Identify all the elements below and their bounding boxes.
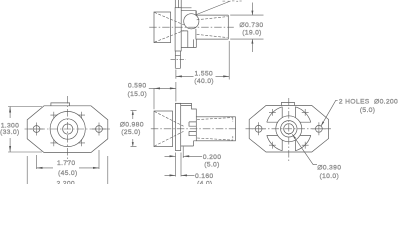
svg-text:(5.0): (5.0) [360, 107, 375, 114]
inner circle [281, 121, 297, 137]
flange slab (edge-on) [175, 8, 181, 51]
svg-text:Ø0.980: Ø0.980 [120, 122, 144, 129]
svg-text:(15.0): (15.0) [128, 91, 148, 98]
svg-text:0.590: 0.590 [128, 83, 147, 90]
body steps below circle [181, 29, 196, 48]
dim 1.550 extension lines [176, 41, 229, 80]
stub centerline [171, 58, 186, 60]
left hole center marks [252, 122, 266, 135]
svg-text:(45.0): (45.0) [58, 170, 78, 177]
svg-text:Ø0.390: Ø0.390 [317, 164, 341, 171]
flange slab [175, 103, 180, 150]
svg-text:(40.0): (40.0) [194, 78, 214, 85]
dim 1.300 line + arrows [9, 107, 11, 153]
svg-text:1.770: 1.770 [57, 160, 76, 167]
center notch rects [189, 122, 196, 136]
dim 1.770 line + arrows [37, 167, 100, 169]
dim 0.730 extension lines [230, 15, 263, 39]
svg-text:(4.0): (4.0) [197, 181, 212, 184]
right mounting hole [316, 125, 323, 132]
side hole circle [184, 14, 199, 29]
bore circle [284, 124, 294, 134]
flange octagon [27, 106, 108, 153]
vertical centerline [67, 96, 69, 162]
dim 0.590 line + arrows [149, 87, 176, 89]
hidden horn taper lower [154, 31, 184, 43]
right hole center marks [92, 123, 106, 136]
rear nozzle cylinder [196, 11, 228, 39]
dim 1.550 line + arrows [176, 75, 229, 77]
dim 1.300 extension lines [8, 107, 42, 153]
flange top tab [175, 0, 181, 8]
slot edges E [300, 122, 311, 135]
flange top tab [282, 102, 295, 105]
hidden internal taper in nozzle [197, 17, 228, 38]
dim 0.160 line+arrows [165, 174, 195, 176]
svg-text:(5.0): (5.0) [204, 162, 219, 169]
nozzle cylinder [196, 117, 235, 141]
cropped note text remnant [223, 0, 242, 2]
dim 2.200 extension lines [27, 156, 108, 184]
left mounting hole [33, 126, 40, 133]
hidden horn taper upper [154, 112, 183, 127]
svg-text:Ø0.730: Ø0.730 [239, 22, 263, 29]
hidden bore end verticals [232, 118, 234, 141]
hidden horn taper lower [154, 131, 183, 146]
counterbore circle [57, 119, 77, 139]
svg-text:(19.0): (19.0) [242, 29, 262, 36]
flange octagon [249, 106, 328, 153]
cone housing rectangle [154, 12, 171, 43]
left hole center marks [30, 123, 44, 136]
big boss circle [50, 111, 85, 146]
slot edges W [267, 122, 278, 135]
leader to cropped note [196, 1, 231, 15]
boss circle [276, 116, 302, 142]
right mounting hole [96, 126, 103, 133]
left mounting hole [255, 125, 262, 132]
svg-text:(33.0): (33.0) [0, 129, 20, 136]
svg-text:(25.0): (25.0) [121, 129, 141, 136]
svg-text:2 HOLES Ø0.200: 2 HOLES Ø0.200 [339, 98, 398, 105]
dim 0.200 extension+arrows [176, 147, 184, 177]
dim 0.980 arrows [131, 110, 137, 146]
corner cross marks [50, 112, 85, 147]
centerline (horizontal axis of upper view) [149, 26, 234, 28]
right hole center marks [312, 122, 326, 135]
slot edges N [282, 107, 295, 118]
svg-text:2.200: 2.200 [57, 181, 76, 184]
svg-text:1.550: 1.550 [195, 71, 214, 78]
dim 1.770 extension lines [37, 150, 100, 169]
center bore [63, 124, 73, 134]
leader 0.390 [292, 134, 317, 164]
dim 0.730 arrows [251, 3, 253, 53]
svg-text:(10.0): (10.0) [320, 173, 340, 180]
centerline [151, 128, 236, 130]
hidden internal taper [197, 118, 233, 141]
leader 2 HOLES [321, 100, 338, 126]
horizontal centerline [246, 128, 332, 130]
cone housing rectangle [154, 111, 173, 147]
flange bottom stub [175, 51, 180, 68]
corner cross marks [269, 109, 309, 149]
vertical centerline [288, 98, 290, 162]
collar body [175, 103, 196, 146]
slot edges S [282, 140, 295, 151]
svg-text:0.160: 0.160 [195, 173, 214, 180]
horizontal centerline [25, 128, 112, 130]
dim 0.590 extension lines [154, 82, 176, 109]
boss lobes (big circle arcs between slots) [267, 107, 311, 151]
hidden horn taper upper [154, 12, 184, 25]
flange top tab [51, 103, 70, 106]
svg-text:0.200: 0.200 [203, 154, 222, 161]
key boss step top [181, 8, 196, 15]
